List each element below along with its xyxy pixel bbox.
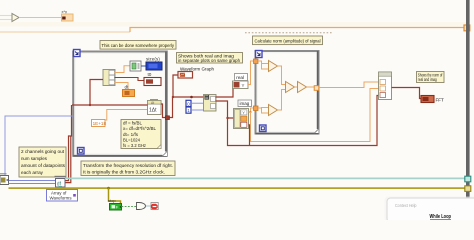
wire yellow error: [9, 187, 466, 189]
svg-text:fs = 3.2 GHz: fs = 3.2 GHz: [123, 143, 146, 148]
junction yellow branch: [107, 187, 110, 190]
junction maroon imag: [226, 117, 228, 119]
label imag: [238, 100, 252, 107]
N terminal structure 2: [74, 50, 81, 57]
wire maroon unbundle to t0: [115, 78, 145, 81]
for loop big (structure 2) border: [73, 52, 167, 156]
wire orange imagY bypass: [251, 89, 379, 142]
svg-text:stop: stop: [108, 198, 116, 203]
faint dotted text row: [245, 32, 333, 34]
wire orange imagY to loop tunnel: [249, 108, 255, 112]
wire blue const0: [191, 102, 204, 104]
wire orange unbundle to dt: [115, 83, 129, 90]
wire orange realY to loop: [248, 61, 254, 85]
wire blue size: [141, 65, 146, 67]
label transform frequency: [81, 161, 175, 176]
label this-can-be-done: [100, 41, 176, 50]
label shows the norm: [417, 72, 445, 83]
svg-text:Calculate norm (amplitude) of: Calculate norm (amplitude) of signal: [255, 38, 321, 44]
get Y real node: [233, 81, 249, 89]
svg-text:size(s): size(s): [146, 57, 160, 62]
build waveform node: [148, 100, 162, 115]
or gate: [137, 203, 146, 210]
wire orange loop out to build array: [319, 82, 379, 88]
svg-text:x*y: x*y: [62, 9, 68, 14]
svg-text:Transform the frequency resolu: Transform the frequency resolution df ri…: [83, 163, 173, 169]
index array node: [204, 95, 217, 112]
svg-text:Waveforms: Waveforms: [50, 196, 73, 201]
junction trunk-unbundle: [89, 104, 91, 106]
DAQ node left edge: [0, 174, 9, 185]
wire maroon trunk into build waveform: [72, 104, 148, 106]
multiply node top-left: [12, 14, 19, 22]
N terminal for loop: [256, 51, 263, 58]
svg-text:t0: t0: [148, 72, 152, 77]
svg-text:each array: each array: [21, 170, 44, 176]
wire boolean or to stopsign: [146, 205, 151, 207]
svg-text:df = fs/BL: df = fs/BL: [123, 120, 143, 125]
wire maroon build array to fft indicator: [392, 88, 422, 99]
get components imag node: [234, 109, 249, 129]
junction maroon: [172, 96, 174, 98]
constant 0: [186, 100, 191, 106]
array size icon: [130, 61, 141, 71]
tunnel orange right: [314, 86, 319, 91]
svg-text:1E+18: 1E+18: [93, 121, 107, 126]
indicator dt: [123, 85, 135, 97]
add node: [286, 82, 295, 93]
label array of waveforms: [47, 190, 78, 202]
svg-text:Y: Y: [242, 110, 245, 115]
wire orange tunnel2 to mult2: [258, 108, 269, 114]
tunnel teal: [465, 176, 471, 182]
svg-text:dt: dt: [125, 85, 130, 90]
label shows both real and imag: [177, 53, 243, 65]
label 2 channels: [19, 147, 66, 177]
faint band: [0, 22, 466, 27]
i terminal for loop: [260, 125, 267, 132]
svg-text:dt= 1/fs: dt= 1/fs: [123, 132, 138, 137]
label calculate norm: [253, 36, 323, 45]
wire maroon build waveform down to tunnel: [161, 104, 166, 118]
wire orange 1E+18 to build waveform: [105, 110, 148, 121]
svg-text:real: real: [236, 75, 244, 80]
wire multiply to indicator: [19, 17, 62, 19]
wire orange unbundle to array size: [115, 66, 131, 73]
indicator FFT: [421, 96, 444, 103]
wire long orange to while loop: [0, 28, 466, 33]
terminal waveform graph: [178, 72, 193, 79]
i terminal structure 2: [78, 148, 85, 155]
svg-text:This can be done somewhere pro: This can be done somewhere properly: [102, 43, 175, 49]
wire yellow to stop: [109, 188, 121, 203]
tunnel orange left 1: [254, 59, 259, 64]
multiply 1: [269, 61, 278, 72]
svg-text:FFT: FFT: [436, 98, 444, 103]
multiply 2: [269, 105, 278, 116]
svg-text:in separate plots on same grap: in separate plots on same graph: [178, 58, 240, 64]
svg-text:While Loop: While Loop: [430, 214, 452, 220]
wire maroon real out: [216, 86, 234, 98]
wire boolean stop to or: [122, 206, 137, 208]
wire orange mult1 to add: [278, 66, 286, 85]
resize glyph structure 2: [163, 152, 168, 157]
wire maroon t0 cell down: [249, 125, 250, 146]
svg-text:imag: imag: [240, 101, 250, 106]
stop sign node: [151, 203, 158, 210]
sqrt node: [298, 82, 307, 93]
wire orange add to sqrt: [295, 86, 298, 88]
constant 1E+18: [92, 120, 107, 127]
build array node: [379, 72, 392, 100]
svg-text:amount of datapoints: amount of datapoints: [21, 163, 66, 169]
wire blue up-and-over: [5, 116, 73, 181]
wire maroon tunnel up: [170, 97, 204, 118]
svg-text:Y: Y: [242, 83, 245, 88]
FFT vi node: [55, 176, 66, 191]
svg-text:BL=1024: BL=1024: [123, 138, 141, 143]
unbundle waveform components: [103, 70, 115, 86]
tunnel maroon structure 2: [166, 116, 170, 120]
formula comment box: [121, 120, 161, 149]
svg-text:2 channels going out: 2 channels going out: [21, 149, 65, 155]
resize glyph for loop: [315, 129, 319, 133]
svg-text:real and imag: real and imag: [418, 77, 438, 82]
svg-text:x= df=dt*fs^2/BL: x= df=dt*fs^2/BL: [123, 126, 157, 131]
svg-text:num samples: num samples: [21, 156, 48, 162]
tunnel orange on while loop: [464, 25, 470, 31]
tunnel orange left 2: [254, 106, 259, 111]
svg-text:1Δt: 1Δt: [149, 108, 157, 114]
wire orange mult2 to add: [278, 90, 286, 111]
junction orange imagY: [249, 111, 251, 113]
for loop norm border: [256, 51, 319, 134]
svg-text:It is originally the dt from 3: It is originally the dt from 3.2GHz cloc…: [83, 170, 165, 176]
wire blue const1: [191, 109, 204, 111]
while loop right border: [466, 0, 470, 199]
wire teal error: [65, 177, 465, 179]
constant 1: [186, 107, 191, 113]
indicator t0: [144, 72, 161, 86]
wire orange tunnel1 to mult1: [258, 61, 269, 69]
wire maroon imag out: [216, 101, 234, 118]
wire maroon into unbundle: [90, 80, 103, 106]
label real: [235, 74, 248, 81]
wire maroon trunk verticals down-left: [64, 105, 72, 181]
context help panel: [385, 197, 474, 223]
stop button terminal: [110, 204, 122, 211]
wire maroon imag trunk bypass: [228, 96, 379, 146]
wire blue daq to fft 2: [9, 183, 56, 185]
svg-text:Δt: Δt: [151, 101, 154, 105]
tunnel yellow: [465, 186, 471, 192]
wire top input pair: [0, 16, 12, 20]
svg-text:Context Help: Context Help: [395, 203, 417, 208]
wire maroon graph feed: [173, 75, 178, 97]
wire orange sqrt to tunnel: [307, 86, 315, 88]
indicator x*y: [62, 9, 74, 21]
indicator size(s): [146, 57, 162, 71]
wire blue daq to fft 1: [9, 180, 56, 182]
